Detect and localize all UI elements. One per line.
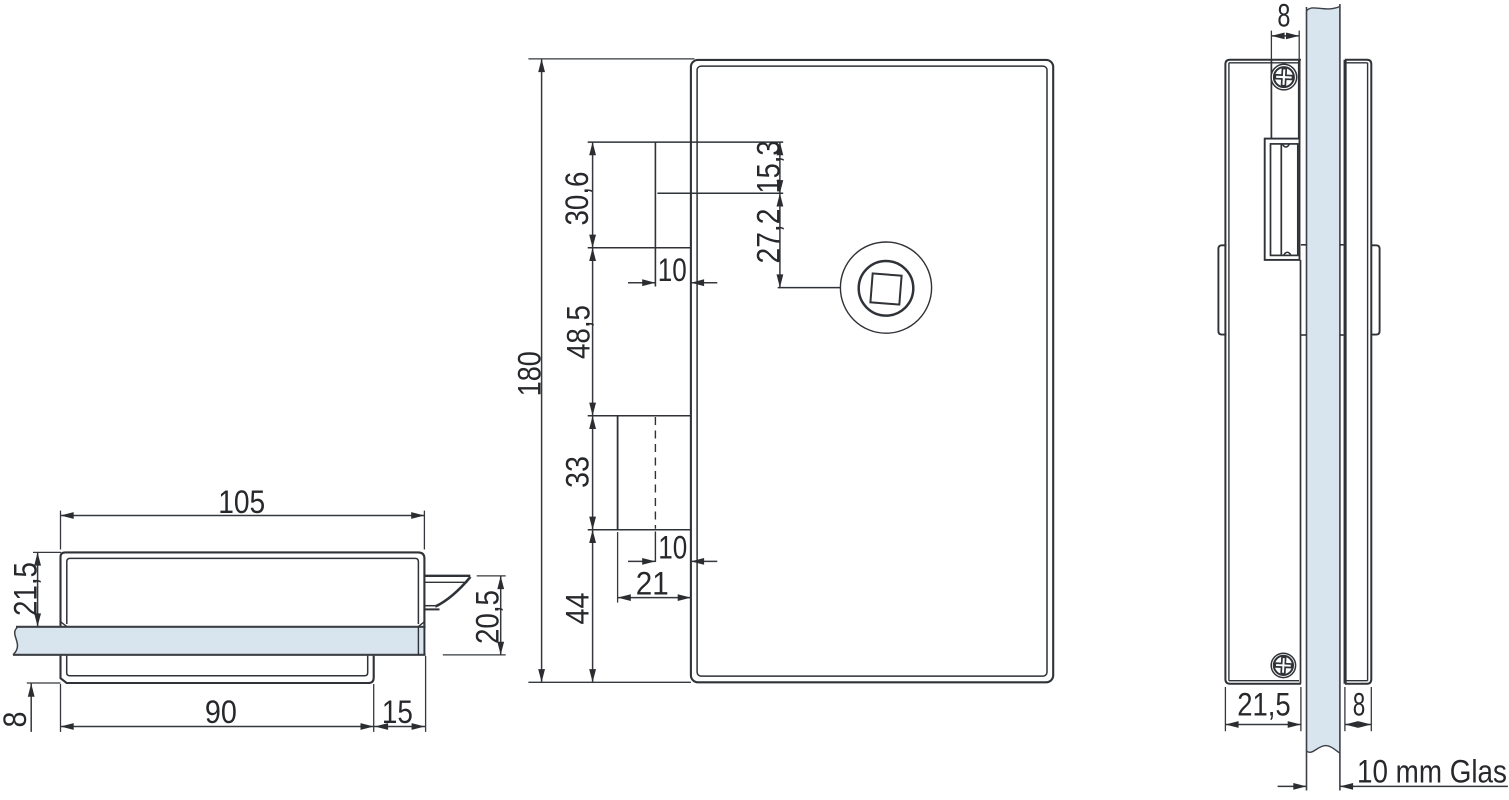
left view: strike plate outer outline xyxy=(61,656,374,683)
svg-text:8: 8 xyxy=(1353,687,1365,723)
front view: body inner outline xyxy=(697,66,1047,676)
svg-text:105: 105 xyxy=(218,485,265,520)
right view: dimension 10 mm Glas xyxy=(1278,754,1508,789)
right view: top screw xyxy=(1271,64,1297,90)
left view: lock case inner edge xyxy=(67,558,419,624)
left view: dimension 21,5 xyxy=(9,552,61,626)
front view: dimension 30,6 xyxy=(560,142,596,248)
front view: body outer outline xyxy=(691,60,1053,682)
svg-text:21,5: 21,5 xyxy=(9,562,44,616)
right view: clamp tab left xyxy=(1218,245,1226,334)
front view: dimension 10 upper xyxy=(628,252,717,288)
left view: dimension 20,5 xyxy=(443,576,506,655)
svg-text:48,5: 48,5 xyxy=(562,305,597,359)
front view: spindle leader line xyxy=(778,287,841,289)
svg-text:90: 90 xyxy=(205,694,237,730)
right view: dimension 8 bottom xyxy=(1345,687,1371,732)
right view: dimension 8 top xyxy=(1271,0,1299,137)
svg-text:21,5: 21,5 xyxy=(1237,688,1290,724)
front view: dimension 33 xyxy=(560,416,596,530)
left view: lock case outer outline xyxy=(61,552,425,654)
svg-text:10: 10 xyxy=(658,252,687,288)
front view: dimension 10 lower xyxy=(628,530,717,566)
svg-text:8: 8 xyxy=(1277,0,1290,33)
right view: clamp tab right xyxy=(1371,245,1380,334)
front view: spindle hole xyxy=(840,242,931,333)
left view: strike plate inner edge xyxy=(67,656,368,676)
left view: latch bolt xyxy=(424,576,470,610)
left view: dimension 8 xyxy=(0,683,60,732)
left view: dimension 90 xyxy=(61,684,374,732)
front view: latch pocket xyxy=(588,142,784,286)
svg-text:8: 8 xyxy=(0,711,34,727)
front view: dimension 180 xyxy=(512,59,694,682)
front view: lower pocket with hidden line xyxy=(588,416,691,562)
left view: dimension 105 xyxy=(61,485,425,549)
svg-text:10: 10 xyxy=(658,530,687,566)
svg-text:10 mm Glas: 10 mm Glas xyxy=(1357,754,1507,789)
right view: latch housing xyxy=(1265,139,1300,260)
right view: dimension 21,5 xyxy=(1225,687,1301,731)
right view: glass cutout edge left xyxy=(1301,245,1307,335)
front view: dimension 27,2 xyxy=(752,193,787,287)
front view: dimension 21 xyxy=(618,532,691,603)
svg-text:30,6: 30,6 xyxy=(560,172,595,226)
svg-text:27,2: 27,2 xyxy=(752,209,787,264)
left view: dimension 15 xyxy=(374,656,426,732)
front view: dimension 15,3 xyxy=(751,141,787,194)
svg-text:20,5: 20,5 xyxy=(471,590,506,644)
right view: right cover plate xyxy=(1345,60,1371,684)
right view: glass panel xyxy=(1307,4,1340,791)
right view: glass cutout edge right xyxy=(1340,245,1344,335)
right view: left cover plate xyxy=(1225,60,1301,684)
svg-text:180: 180 xyxy=(512,351,548,396)
left view: glass panel xyxy=(13,627,426,655)
svg-text:33: 33 xyxy=(560,456,596,488)
front view: dimension 48,5 xyxy=(562,248,597,416)
svg-text:21: 21 xyxy=(636,565,669,601)
svg-text:15,3: 15,3 xyxy=(751,141,787,194)
right view: bottom screw xyxy=(1271,653,1295,677)
svg-text:44: 44 xyxy=(560,593,596,625)
svg-text:15: 15 xyxy=(382,695,413,730)
front view: dimension 44 xyxy=(560,530,596,683)
